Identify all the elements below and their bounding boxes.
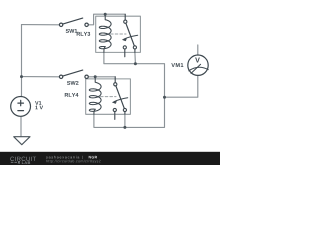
node: SW2/RLY4 coil junction — [94, 75, 97, 78]
relay RLY3 linkage dashes — [111, 33, 127, 35]
label SW2 — [67, 81, 79, 85]
switch SW1 — [59, 18, 88, 26]
wire: VM1 top stub — [197, 45, 199, 55]
label V1 — [35, 101, 41, 105]
wire: RLY3 bottom bus to right branch — [94, 52, 165, 127]
relay RLY3 actuator arrow — [122, 35, 137, 41]
wire: SW2 output across to RLY4 — [88, 76, 115, 78]
node: RLY4 NO pin on bus — [123, 126, 126, 129]
relay RLY4 switch contact — [113, 77, 126, 120]
ground — [14, 137, 30, 145]
label RLY3 — [77, 32, 90, 36]
label VM1 — [171, 63, 183, 67]
voltmeter V letter — [195, 58, 200, 63]
relay RLY3 switch contact — [123, 14, 136, 57]
voltmeter VM1 — [188, 55, 208, 75]
wire: top horizontal from corner to SW1 — [22, 24, 60, 26]
relay RLY4 box — [86, 79, 131, 114]
relay RLY4 linkage dashes — [101, 96, 117, 98]
label V1 value 1 V — [35, 106, 43, 110]
wire: SW1 output jog up and across to RLY3 — [88, 14, 125, 25]
node: RLY3 NO pin on bus — [134, 62, 137, 65]
wire: left vertical rail from top corner to V1 — [21, 25, 23, 97]
watermark CircuitLab logo — [10, 157, 36, 164]
wire: RLY3 NO pin drop to bus — [134, 52, 137, 63]
junction node dots — [20, 13, 166, 129]
node: VM1 branch — [163, 96, 166, 99]
node: left rail / SW2 tap — [20, 75, 23, 78]
wire: V1 bottom lead to ground — [20, 116, 22, 136]
wire: RLY4 NO pin drop to bus — [124, 114, 126, 127]
voltage source V1 — [11, 97, 31, 117]
wire: SW2 feed from left rail — [22, 76, 60, 78]
switch SW2 — [59, 70, 88, 78]
label RLY4 — [65, 93, 79, 97]
watermark url text — [46, 156, 100, 163]
relay RLY3 box — [96, 16, 141, 52]
watermark bar — [0, 152, 220, 165]
relay RLY3 coil — [99, 14, 111, 52]
wire: branch to VM1 bottom — [165, 76, 198, 98]
label SW1 — [66, 29, 78, 33]
relay RLY4 actuator arrow — [112, 98, 127, 104]
relay RLY4 coil — [89, 77, 101, 115]
node: SW1/RLY3 coil junction — [104, 13, 107, 16]
